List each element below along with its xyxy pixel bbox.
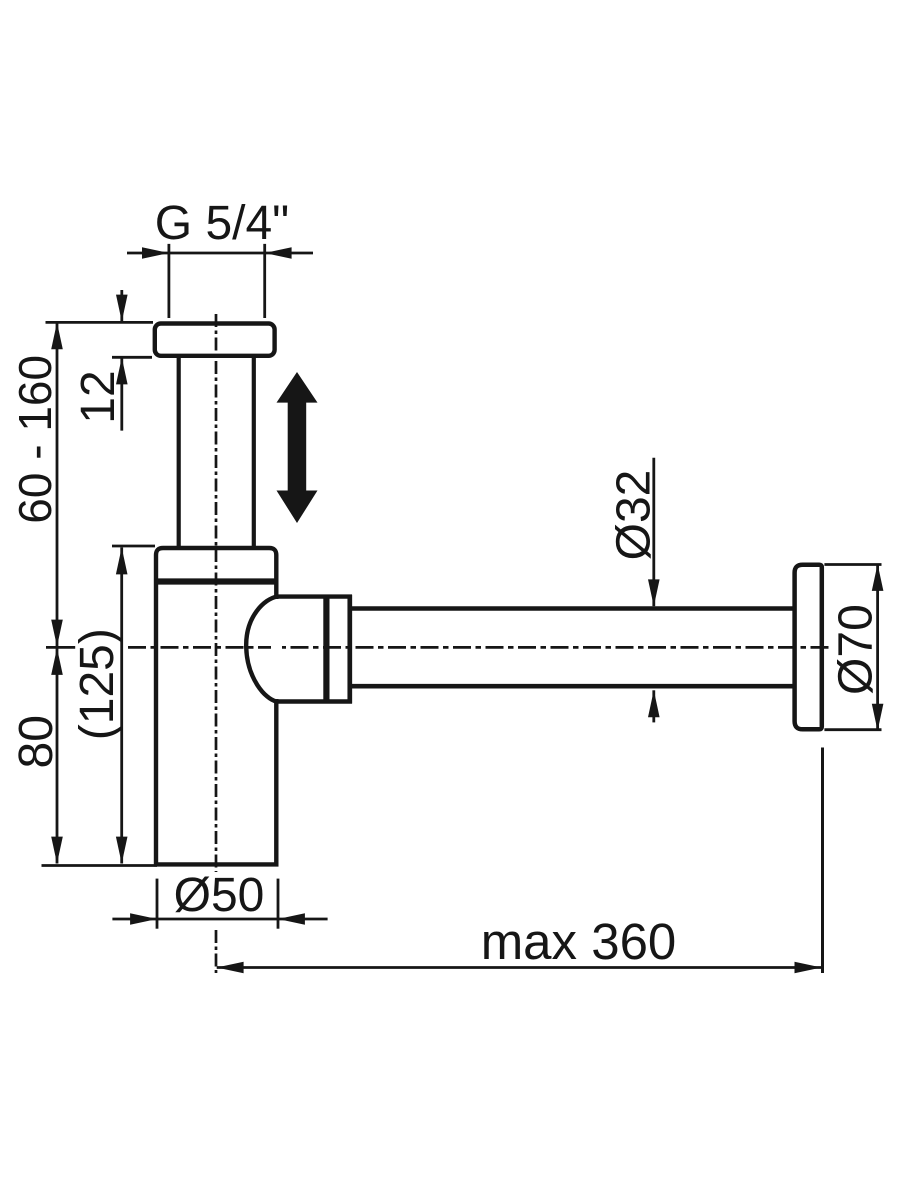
arrowhead G5/4 right <box>265 247 292 259</box>
svg-text:max 360: max 360 <box>481 913 677 970</box>
elbow top edge <box>277 594 353 598</box>
outlet pipe bottom wall <box>352 684 795 689</box>
elbow outlet curve <box>246 597 276 702</box>
O70 extension line bottom <box>824 728 881 731</box>
white gap in body right wall at elbow <box>271 599 282 699</box>
dimension (125) line <box>120 548 123 864</box>
trap body cup <box>156 548 276 864</box>
arrowhead O32 top <box>648 579 660 606</box>
arrowhead max360 left <box>217 962 244 974</box>
dimension 12 lower line <box>120 358 123 431</box>
vertical centerline of trap body <box>215 314 218 872</box>
dimension O50 line <box>112 918 327 921</box>
arrowhead O70 bottom <box>872 704 884 731</box>
arrowhead 125 top <box>116 548 128 575</box>
outlet pipe top wall <box>352 606 795 611</box>
extension line flange top <box>46 321 154 324</box>
union nut bar 1 <box>323 595 329 704</box>
extension line body bottom <box>42 864 158 867</box>
dimension G 5/4 line <box>127 252 313 255</box>
arrowhead 80 bottom <box>51 837 63 864</box>
extension line body top <box>112 545 155 548</box>
top flange nut <box>155 324 275 356</box>
arrowhead 12 bottom <box>116 358 128 385</box>
elbow bottom edge <box>277 699 353 703</box>
arrowhead 60-160 bottom <box>51 620 63 647</box>
G 5/4 extension line right <box>263 244 266 318</box>
arrowhead max360 right <box>795 962 822 974</box>
dimension 60-160 line <box>56 322 59 646</box>
arrowhead G5/4 left <box>142 247 169 259</box>
svg-text:Ø50: Ø50 <box>174 869 265 922</box>
svg-text:G 5/4": G 5/4" <box>155 197 289 250</box>
arrowhead 12 top <box>116 295 128 322</box>
inlet tube wall right <box>252 356 256 548</box>
arrowhead O50 left <box>130 913 157 925</box>
dimension 12 upper line <box>120 290 123 322</box>
horizontal centerline of outlet pipe <box>46 646 75 649</box>
arrowhead O32 bottom <box>648 690 660 717</box>
svg-text:80: 80 <box>10 715 63 768</box>
body joint band <box>154 578 278 584</box>
dimension O32 upper line <box>652 458 655 607</box>
dimension O70 line <box>876 564 879 731</box>
O70 extension line top <box>824 563 881 566</box>
extension line under wall flange <box>821 748 824 974</box>
svg-text:(125): (125) <box>71 628 124 740</box>
G 5/4 extension line left <box>167 244 170 318</box>
inlet tube wall left <box>177 356 181 548</box>
wall flange rosette <box>795 565 822 730</box>
O50 extension line left <box>156 879 159 929</box>
union nut bar 2 <box>347 595 352 704</box>
svg-text:Ø32: Ø32 <box>608 470 661 561</box>
arrowhead O50 right <box>278 913 305 925</box>
svg-text:12: 12 <box>72 370 125 423</box>
arrowhead 60-160 top <box>51 322 63 349</box>
dimension max 360 line <box>217 966 822 969</box>
svg-text:Ø70: Ø70 <box>830 604 883 695</box>
arrowhead 125 bottom <box>116 837 128 864</box>
svg-text:60 - 160: 60 - 160 <box>9 355 61 524</box>
height adjustment double arrow <box>277 372 318 523</box>
arrowhead 80 top <box>51 648 63 675</box>
extension line flange bottom <box>112 356 152 359</box>
arrowhead O70 top <box>872 564 884 591</box>
dimension 80 line <box>56 648 59 864</box>
dimension O32 lower line <box>652 690 655 722</box>
O50 extension line right <box>277 879 280 929</box>
